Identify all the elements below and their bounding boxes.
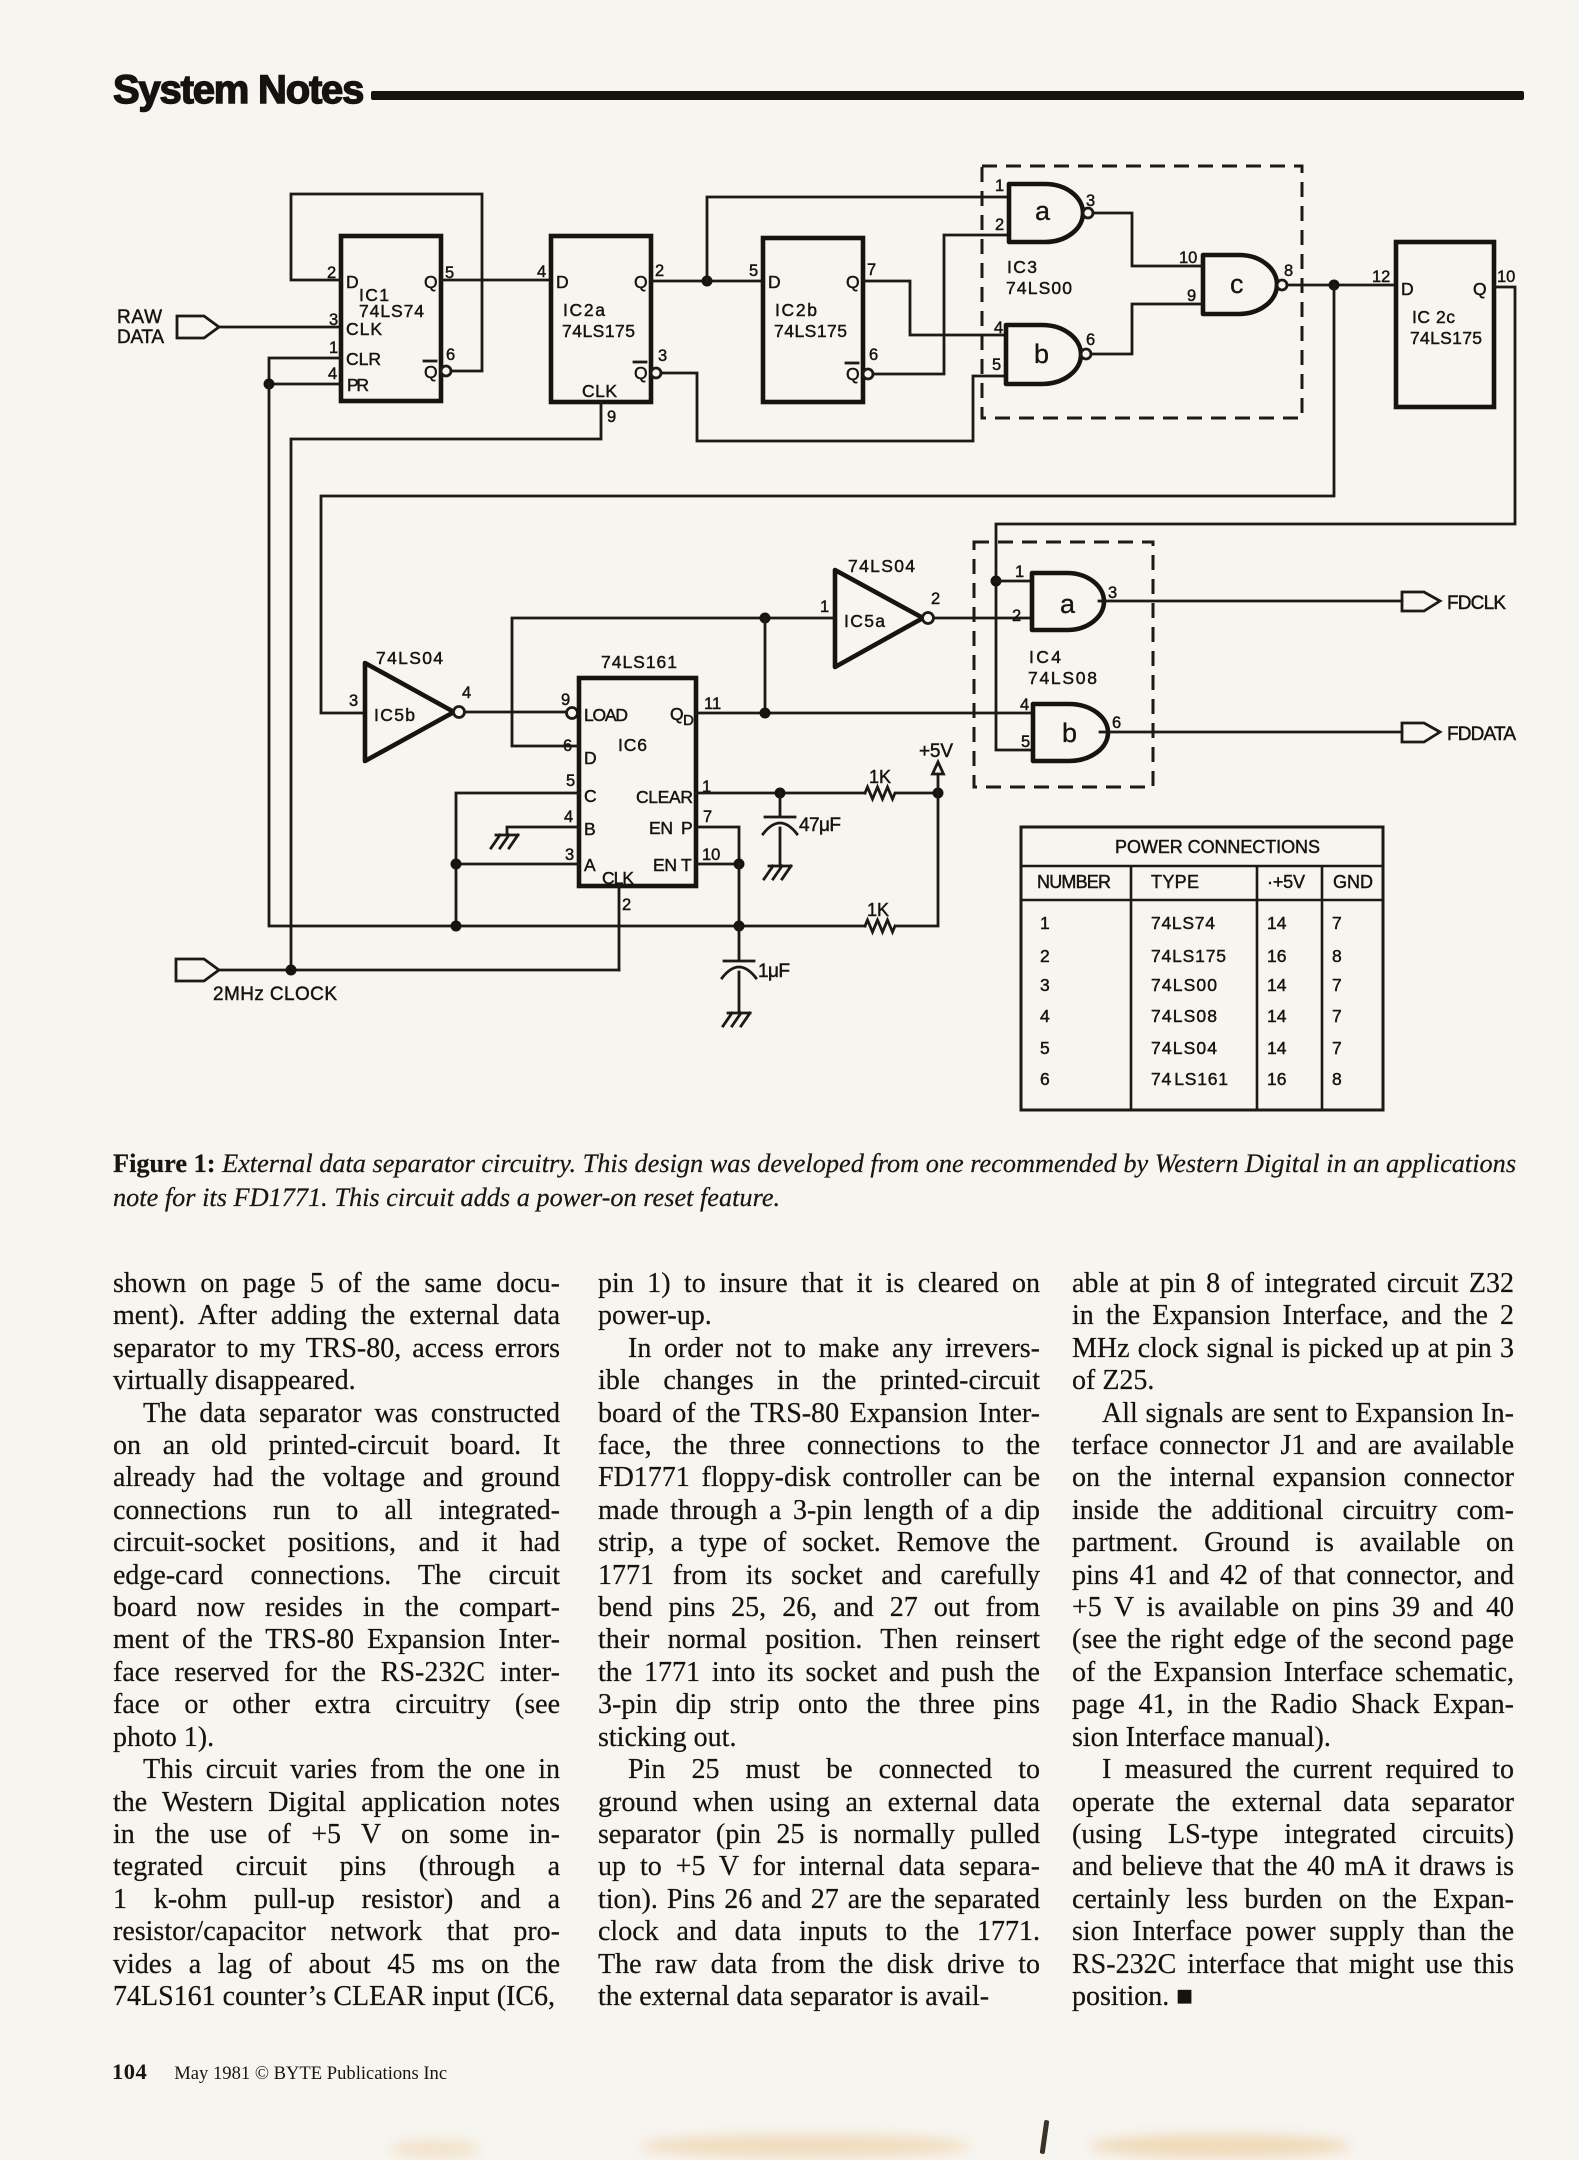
svg-text:FDDATA: FDDATA — [1447, 724, 1516, 745]
wire: IC4a out to FDCLK — [1099, 600, 1402, 603]
svg-text:T: T — [681, 855, 692, 875]
svg-text:1: 1 — [1015, 563, 1024, 581]
wire: IC5b out to IC6 LOAD (pin 9) — [465, 711, 566, 714]
svg-text:NUMBER: NUMBER — [1037, 872, 1111, 892]
wire: IC2b Q (pin 7) to IC3 NAND b pin 4 — [863, 281, 1006, 335]
svg-text:IC3: IC3 — [1007, 257, 1037, 277]
svg-text:1μF: 1μF — [758, 961, 790, 982]
flip-flop IC2b 74LS175 — [763, 238, 863, 402]
svg-text:D: D — [768, 272, 781, 292]
svg-text:CLEAR: CLEAR — [636, 787, 693, 807]
svg-text:Q: Q — [634, 272, 648, 292]
resistor R2 1K (lower pull-up) — [865, 900, 895, 932]
pin 6 (IC6 D) — [563, 737, 572, 755]
pin 6 (IC2b Qbar) — [869, 346, 878, 364]
svg-text:6: 6 — [869, 346, 878, 364]
svg-text:5: 5 — [992, 356, 1001, 374]
wire: IC3a out to IC3c pin 10 — [1093, 213, 1203, 266]
svg-text:IC 2c: IC 2c — [1412, 307, 1455, 327]
NAND gate IC3c — [1203, 255, 1277, 314]
svg-text:11: 11 — [704, 695, 721, 713]
junction rail / 1uF — [734, 921, 745, 932]
svg-text:PR: PR — [347, 375, 369, 395]
ground (1uF) — [723, 1013, 750, 1026]
svg-text:9: 9 — [607, 408, 616, 426]
svg-text:74LS08: 74LS08 — [1028, 668, 1097, 688]
pin 4 (IC6 B) — [564, 808, 573, 826]
svg-text:Q: Q — [846, 364, 860, 384]
svg-text:74LS175: 74LS175 — [562, 321, 635, 341]
wire: IC2a Qbar to IC3 NAND b pin 5 — [661, 373, 1006, 441]
svg-text:D: D — [556, 272, 569, 292]
node FDCLK output arrow — [1402, 592, 1506, 614]
wire: IC6 QD (pin 11) to IC4b pin 4 — [696, 712, 1033, 715]
svg-text:2: 2 — [995, 216, 1004, 234]
IC2a Qbar bubble — [651, 368, 661, 378]
IC5b output bubble — [454, 707, 465, 718]
pin 9 (IC6 LOAD) — [561, 691, 570, 709]
flip-flop IC2a 74LS175 — [551, 236, 651, 402]
svg-text:74LS04: 74LS04 — [1151, 1038, 1217, 1058]
svg-text:1K: 1K — [867, 900, 889, 920]
wire: IC3c out to IC2c D (pin 12) — [1287, 284, 1396, 287]
pin 3 (IC6 A) — [565, 846, 574, 864]
pin 1 (IC5a in) — [820, 598, 829, 616]
svg-text:D: D — [683, 712, 694, 729]
pin 1 (IC3a in) — [995, 177, 1004, 195]
svg-text:5: 5 — [1040, 1038, 1050, 1058]
pin 4 (IC3b in) — [994, 319, 1003, 337]
IC4 dashed outline 74LS08 — [974, 542, 1153, 787]
svg-text:7: 7 — [1332, 975, 1342, 995]
pin 5 (IC1 Q) — [445, 264, 454, 282]
wire: IC2a Q (pin 2) to IC2b D (pin 5) — [651, 280, 763, 283]
wire: IC4b out to FDDATA — [1100, 731, 1402, 734]
svg-text:LOAD: LOAD — [584, 705, 628, 725]
svg-text:RAW: RAW — [117, 307, 162, 328]
svg-text:9: 9 — [1187, 287, 1196, 305]
svg-text:16: 16 — [1267, 1069, 1286, 1089]
node RAW DATA input arrow — [117, 307, 219, 348]
svg-text:TYPE: TYPE — [1151, 872, 1199, 892]
wire: riser QD line — [764, 618, 767, 713]
svg-text:74LS08: 74LS08 — [1151, 1006, 1217, 1026]
svg-text:1: 1 — [820, 598, 829, 616]
svg-text:A: A — [584, 855, 596, 875]
svg-text:7: 7 — [867, 261, 876, 279]
wire: RAW DATA to IC1 CLK pin 3 — [219, 326, 341, 329]
svg-text:1: 1 — [995, 177, 1004, 195]
svg-text:P: P — [681, 818, 693, 838]
pin 4 (IC2a D) — [537, 263, 546, 281]
pin 10 (IC2c Q) — [1497, 268, 1515, 286]
svg-text:7: 7 — [1332, 1038, 1342, 1058]
svg-text:9: 9 — [561, 691, 570, 709]
wire: IC6 D (pin 6) up to IC5a input line — [512, 618, 835, 746]
IC3a output bubble — [1083, 208, 1093, 218]
wire: PR junction down and right to pull-up rail — [269, 384, 865, 926]
flip-flop IC1 74LS74 — [341, 236, 441, 401]
svg-text:10: 10 — [1179, 249, 1197, 267]
svg-text:b: b — [1034, 339, 1049, 369]
svg-text:3: 3 — [329, 311, 338, 329]
svg-text:4: 4 — [994, 319, 1003, 337]
pin 1 (IC4a in) — [1015, 563, 1024, 581]
svg-text:IC6: IC6 — [618, 735, 647, 755]
svg-text:4: 4 — [537, 263, 546, 281]
power connections table — [1021, 827, 1383, 1110]
svg-text:DATA: DATA — [117, 327, 164, 348]
pin 5 (IC4b in) — [1021, 733, 1030, 751]
node FDDATA output arrow — [1402, 723, 1516, 745]
svg-text:5: 5 — [1021, 733, 1030, 751]
resistor R1 1K (CLEAR pull-up) — [865, 767, 938, 799]
junction D-line to QD riser — [760, 613, 771, 624]
wire: IC2b Qbar (pin 6) to IC3 NAND a pin 2 — [873, 235, 1009, 374]
wire: IC6 EN T (pin 10) — [696, 863, 739, 866]
svg-text:Q: Q — [1473, 279, 1487, 299]
pin 6 (IC3b out) — [1086, 331, 1095, 349]
svg-text:2: 2 — [1012, 607, 1021, 625]
svg-text:74LS161: 74LS161 — [601, 652, 677, 672]
svg-text:74LS04: 74LS04 — [848, 556, 915, 576]
svg-text:74LS74: 74LS74 — [1151, 913, 1215, 933]
svg-text:IC2b: IC2b — [775, 300, 817, 320]
svg-text:4: 4 — [462, 684, 471, 702]
svg-text:a: a — [1035, 196, 1051, 226]
svg-text:2MHz CLOCK: 2MHz CLOCK — [213, 984, 337, 1005]
pin 6 (IC1 Qbar) — [446, 346, 455, 364]
node 2MHz CLOCK input arrow — [176, 959, 337, 1005]
IC1 Qbar output bubble — [441, 366, 451, 376]
wire: EN tie down to rail — [738, 864, 741, 926]
pin 9 (IC2a CLK) — [607, 408, 616, 426]
ground (47uF) — [764, 866, 791, 879]
svg-text:IC5a: IC5a — [844, 611, 885, 631]
svg-text:7: 7 — [1332, 913, 1342, 933]
svg-text:1K: 1K — [869, 767, 891, 787]
wire: 2MHz CLOCK line — [219, 969, 619, 972]
svg-text:8: 8 — [1332, 946, 1342, 966]
svg-text:4: 4 — [1020, 696, 1029, 714]
svg-text:74 LS161: 74 LS161 — [1151, 1069, 1228, 1089]
svg-text:14: 14 — [1267, 975, 1287, 995]
wire: IC2c Q down and left to IC4 pin1/pin5 riser — [996, 287, 1515, 750]
svg-text:4: 4 — [1040, 1006, 1050, 1026]
wire: IC6 B (pin 4) to ground — [507, 827, 579, 834]
svg-text:c: c — [1230, 269, 1244, 299]
pin 10 (IC3c in) — [1179, 249, 1197, 267]
svg-text:FDCLK: FDCLK — [1447, 593, 1506, 614]
svg-text:GND: GND — [1333, 872, 1373, 892]
svg-text:10: 10 — [702, 846, 720, 864]
wire: IC6 EN P (pin 7) to EN T tie — [696, 827, 739, 864]
pin 12 (IC2c D) — [1372, 268, 1390, 286]
IC2b Qbar bubble — [863, 369, 873, 379]
svg-text:IC2a: IC2a — [563, 300, 605, 320]
wire: IC1 CLR to PR tie — [269, 358, 341, 384]
svg-text:14: 14 — [1267, 1006, 1287, 1026]
pin 2 (IC5a out) — [931, 590, 940, 608]
svg-text:Q: Q — [424, 362, 438, 382]
junction IC4 pin 1 tap — [991, 576, 1002, 587]
svg-text:1: 1 — [329, 339, 338, 357]
svg-text:5: 5 — [566, 772, 575, 790]
junction A tap — [451, 859, 462, 870]
pin 4 (IC1 PR) — [328, 365, 337, 383]
svg-text:8: 8 — [1332, 1069, 1342, 1089]
wire: +5V rail down — [896, 793, 938, 926]
svg-text:Q: Q — [424, 272, 438, 292]
pin 2 (IC2a Q) — [655, 262, 664, 280]
pin 5 (IC2b D) — [749, 262, 758, 280]
svg-text:6: 6 — [1112, 714, 1121, 732]
pin 8 (IC3c out) — [1284, 262, 1293, 280]
NAND gate IC3a — [1009, 184, 1083, 242]
pin 1 (IC1 CLR) — [329, 339, 338, 357]
IC3 dashed outline 74LS00 — [982, 166, 1302, 418]
svg-text:3: 3 — [1040, 975, 1050, 995]
svg-text:+5V: +5V — [919, 741, 953, 762]
svg-text:6: 6 — [1040, 1069, 1050, 1089]
svg-text:16: 16 — [1267, 946, 1286, 966]
svg-text:D: D — [1401, 279, 1414, 299]
svg-text:14: 14 — [1267, 1038, 1287, 1058]
svg-text:D: D — [584, 748, 597, 768]
junction CLR/PR tie — [264, 379, 275, 390]
flip-flop IC2c 74LS175 — [1396, 242, 1494, 407]
wire: IC6 CLK (pin 2) from 2MHz line — [618, 886, 621, 970]
IC6 LOAD input bubble — [567, 708, 578, 719]
ground (IC6 B) — [491, 835, 518, 848]
svg-text:2: 2 — [622, 896, 631, 914]
svg-text:CLR: CLR — [346, 349, 381, 369]
svg-text:74LS175: 74LS175 — [1410, 328, 1482, 348]
svg-text:b: b — [1062, 718, 1077, 748]
pin 1 (IC6 CLEAR) — [702, 778, 711, 796]
wire: tap to IC4a pin 1 — [996, 580, 1032, 583]
pin 9 (IC3c in) — [1187, 287, 1196, 305]
svg-text:2: 2 — [1040, 946, 1050, 966]
junction C/A riser to +5V rail — [451, 921, 462, 932]
inverter IC5b 74LS04 — [365, 648, 454, 761]
svg-text:2: 2 — [655, 262, 664, 280]
wire: IC5a out to IC4a pin 2 — [934, 617, 1032, 620]
pin 4 (IC4b in) — [1020, 696, 1029, 714]
svg-text:6: 6 — [446, 346, 455, 364]
pin 5 (IC3b in) — [992, 356, 1001, 374]
pin 7 (IC2b Q) — [867, 261, 876, 279]
svg-text:3: 3 — [349, 692, 358, 710]
svg-text:CLK: CLK — [582, 381, 617, 401]
junction +5V rail top — [933, 788, 944, 799]
svg-text:C: C — [584, 786, 597, 806]
svg-text:a: a — [1060, 589, 1076, 619]
pin 11 (IC6 QD) — [704, 695, 721, 713]
svg-text:74LS00: 74LS00 — [1151, 975, 1217, 995]
wire: IC1 Q (pin 5) to IC2a D (pin 4) — [441, 279, 551, 282]
svg-text:4: 4 — [564, 808, 573, 826]
junction QD node — [760, 708, 771, 719]
pin 3 (IC5b in) — [349, 692, 358, 710]
power +5V — [919, 741, 953, 793]
NAND gate IC3b — [1006, 325, 1081, 384]
svg-text:IC5b: IC5b — [374, 705, 415, 725]
junction 2MHz riser — [286, 965, 297, 976]
AND gate IC4b — [1033, 704, 1108, 761]
pin 7 (IC6 EN P) — [703, 808, 712, 826]
wire: 2MHz clock riser to IC2a CLK pin 9 — [291, 402, 601, 970]
svg-text:1: 1 — [1040, 913, 1050, 933]
svg-text:7: 7 — [1332, 1006, 1342, 1026]
IC3c output bubble — [1277, 280, 1287, 290]
AND gate IC4a — [1032, 573, 1104, 630]
pin 3 (IC2a Qbar) — [658, 347, 667, 365]
pin 4 (IC5b out) — [462, 684, 471, 702]
svg-text:POWER CONNECTIONS: POWER CONNECTIONS — [1115, 837, 1320, 857]
svg-text:IC4: IC4 — [1029, 647, 1061, 667]
svg-text:D: D — [346, 272, 359, 292]
wire: IC6 C (pin 5) to rail riser — [456, 793, 579, 926]
svg-text:5: 5 — [749, 262, 758, 280]
svg-text:74LS00: 74LS00 — [1006, 278, 1072, 298]
svg-text:47μF: 47μF — [799, 815, 841, 836]
svg-text:Q: Q — [670, 704, 684, 724]
IC5a output bubble — [923, 613, 934, 624]
svg-text:6: 6 — [1086, 331, 1095, 349]
pin 3 (IC4a out) — [1108, 584, 1117, 602]
pin 2 (IC1 D) — [327, 264, 336, 282]
svg-text:74LS74: 74LS74 — [359, 301, 424, 321]
svg-text:8: 8 — [1284, 262, 1293, 280]
svg-text:3: 3 — [658, 347, 667, 365]
junction IC2a Q node — [702, 276, 713, 287]
svg-text:12: 12 — [1372, 268, 1390, 286]
IC3b output bubble — [1081, 349, 1091, 359]
svg-text:B: B — [584, 819, 596, 839]
capacitor C1 47uF — [763, 793, 841, 866]
svg-text:CLK: CLK — [346, 319, 382, 339]
wire: IC1 Qbar feedback to IC1 D — [291, 194, 482, 371]
svg-text:74LS04: 74LS04 — [376, 648, 443, 668]
pin 3 (IC1 CLK) — [329, 311, 338, 329]
wire: IC3b out to IC3c pin 9 — [1091, 304, 1203, 354]
svg-text:10: 10 — [1497, 268, 1515, 286]
pin 2 (IC4a in) — [1012, 607, 1021, 625]
junction 47uF tap — [775, 788, 786, 799]
wire: IC6 A (pin 3) to riser — [456, 863, 579, 866]
svg-text:EN: EN — [649, 818, 673, 838]
wire: node down/left to IC5b input — [321, 285, 1334, 713]
junction EN T tie — [734, 859, 745, 870]
svg-text:2: 2 — [931, 590, 940, 608]
inverter IC5a 74LS04 — [835, 556, 923, 667]
wire: node up to IC3 NAND a pin 1 — [707, 197, 1009, 281]
svg-text:3: 3 — [1108, 584, 1117, 602]
junction IC3c output node — [1329, 280, 1340, 291]
svg-text:Q: Q — [634, 363, 648, 383]
svg-text:3: 3 — [565, 846, 574, 864]
pin 2 (IC6 CLK) — [622, 896, 631, 914]
pin 3 (IC3a out) — [1086, 192, 1095, 210]
pin 6 (IC4b out) — [1112, 714, 1121, 732]
pin 2 (IC3a in) — [995, 216, 1004, 234]
counter IC6 74LS161 — [579, 652, 696, 888]
svg-text:74LS175: 74LS175 — [1151, 946, 1226, 966]
svg-text:74LS175: 74LS175 — [774, 321, 847, 341]
wire: IC6 CLEAR (pin 1) to pull-up — [696, 792, 865, 795]
capacitor C2 1uF — [722, 926, 790, 1013]
svg-text:14: 14 — [1267, 913, 1287, 933]
svg-text:7: 7 — [703, 808, 712, 826]
svg-text:4: 4 — [328, 365, 337, 383]
svg-text:·+5V: ·+5V — [1267, 872, 1305, 892]
svg-text:EN: EN — [653, 855, 677, 875]
pin 10 (IC6 EN T) — [702, 846, 720, 864]
pin 5 (IC6 C) — [566, 772, 575, 790]
svg-text:Q: Q — [846, 272, 860, 292]
